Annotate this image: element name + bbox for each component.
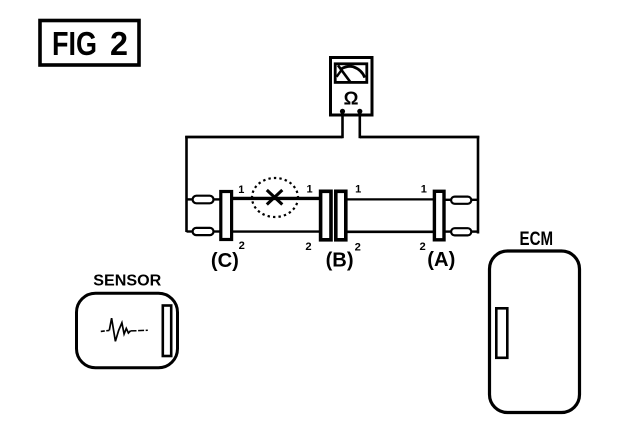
svg-text:1: 1 bbox=[238, 184, 244, 196]
svg-text:2: 2 bbox=[239, 240, 245, 252]
svg-text:(A): (A) bbox=[427, 249, 455, 271]
svg-text:1: 1 bbox=[306, 184, 312, 196]
svg-text:FIG: FIG bbox=[52, 25, 97, 62]
svg-text:1: 1 bbox=[421, 184, 427, 196]
svg-text:2: 2 bbox=[355, 242, 361, 254]
svg-text:2: 2 bbox=[419, 241, 425, 253]
svg-text:Ω: Ω bbox=[344, 88, 359, 109]
svg-text:1: 1 bbox=[355, 184, 361, 196]
svg-text:2: 2 bbox=[305, 241, 311, 253]
svg-text:ECM: ECM bbox=[520, 229, 554, 250]
svg-text:2: 2 bbox=[110, 25, 128, 62]
svg-text:(C): (C) bbox=[211, 250, 239, 272]
svg-text:(B): (B) bbox=[326, 250, 354, 272]
svg-text:SENSOR: SENSOR bbox=[93, 273, 161, 290]
